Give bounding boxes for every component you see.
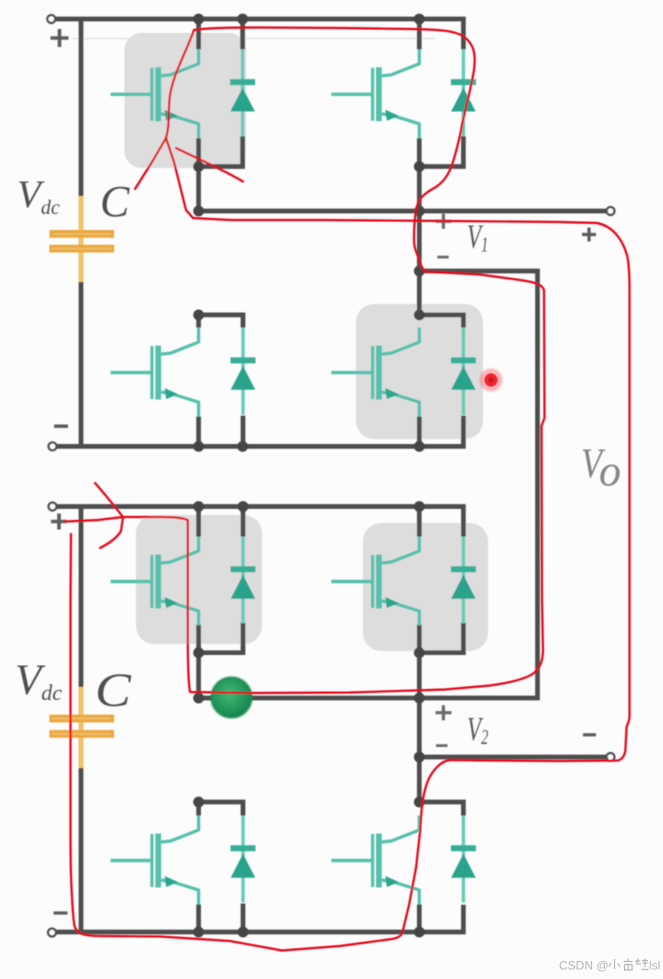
plus sign V1 (436, 214, 452, 229)
wire: S3 leg through V1 node down to lower pair (417, 138, 422, 315)
wire: bridge1 top rail (55, 19, 463, 49)
annotation: red stem up from wavy (166, 30, 194, 138)
svg-text:CSDN @: CSDN @ (559, 959, 609, 973)
junction: bridge1 bottom rail / S4 leg (414, 441, 425, 452)
junction: Vo tap on right leg (414, 266, 425, 277)
terminal bridge1 + (47, 15, 55, 23)
junction: bridge1 bottom rail / D2 branch (237, 441, 248, 452)
diode D2' (231, 816, 256, 903)
terminal Vo - (607, 753, 615, 761)
plus sign bridge2 dc (51, 514, 67, 530)
minus sign V2 (436, 744, 448, 747)
capacitor C (bridge 1) orange lead (79, 196, 84, 283)
capacitor C (bridge 2) plates (49, 715, 114, 723)
junction: V1 line / right leg (414, 206, 425, 217)
junction: top rail / S1 leg (193, 14, 204, 25)
svg-text:Vdc: Vdc (17, 173, 60, 219)
terminal bridge2 - (48, 929, 56, 937)
wire: bridge1 left dc rail lower (79, 282, 84, 446)
wire: D1' branch lower elbow (199, 623, 243, 653)
junction: S4/D4 collector join (414, 310, 425, 321)
annotation: red inner loop stroke (65, 28, 545, 694)
annotation: red wavy left tail of loop (135, 138, 193, 218)
highlight box around S1 (upper-left IGBT pair, bridge 1) (125, 33, 247, 168)
wire: D1 branch upper stub (240, 19, 245, 49)
junction: bridge2 bottom rail / S4' leg (414, 927, 425, 938)
minus sign bridge1 dc (54, 425, 68, 428)
wire: D1' branch upper stub (241, 507, 246, 537)
wire: S3 leg upper stub (417, 19, 422, 49)
highlight box around S1' (upper-left IGBT pair, bridge 2) (136, 515, 262, 644)
terminal Vo + (607, 207, 615, 215)
diode D1' (231, 537, 256, 624)
svg-text:V2: V2 (467, 711, 488, 749)
plus sign V2 (436, 705, 452, 720)
wire: D2 branch bottom stub (241, 416, 246, 447)
junction: S2/D2 collector join (193, 310, 204, 321)
junction: bridge2 top rail / D1' branch (238, 501, 249, 512)
diode D1 (230, 49, 255, 136)
highlight box around S4' (lower-right IGBT pair, bridge 1) (356, 304, 483, 439)
node marker: green dot on bridge2 output (212, 678, 252, 718)
annotation: red scribble bridge2 plus b (100, 517, 123, 548)
wire: bridge2 left dc rail lower (79, 768, 84, 932)
junction: S2'/D2' collector join (193, 797, 204, 808)
junction: bridge2 bottom rail / D2' branch (238, 927, 249, 938)
minus sign V1 (437, 256, 448, 259)
diode D4 (451, 328, 476, 415)
svg-text:C: C (100, 177, 130, 226)
wire: S3' leg upper stub (417, 507, 422, 537)
wire: bridge1 left dc rail upper (79, 19, 84, 199)
wire: S1 leg lower + to output node (196, 138, 201, 211)
IGBT S4' (331, 816, 419, 905)
plus sign Vo top (582, 228, 596, 242)
IGBT S2' (111, 816, 199, 905)
wire: Vo link from bridge1 right leg down around to bridge2 output (199, 271, 538, 698)
wire: S2 leg bottom stub (196, 417, 201, 447)
wire: S2' leg top stub (196, 802, 201, 816)
wire: D1 branch lower elbow (199, 136, 243, 166)
wire: S2 pair top elbow (199, 315, 243, 328)
wire: S1' leg lower to bridge2 output node (196, 625, 201, 699)
capacitor C (bridge 1) plates (49, 230, 114, 238)
wire: S2' pair top elbow (199, 802, 243, 816)
IGBT S1 (111, 49, 199, 138)
IGBT S1' (111, 537, 199, 626)
svg-text:o: o (599, 447, 621, 496)
svg-text:Vdc: Vdc (15, 657, 62, 705)
junction: V1 line / left leg midpoint (193, 206, 204, 217)
junction: bridge2 top rail / S3' leg (414, 501, 425, 512)
watermark (559, 959, 660, 973)
wire: V1 output line to + terminal (199, 209, 609, 214)
junction: bridge2 output / right leg (414, 693, 425, 704)
junction: S1/D1 emitter join (193, 161, 204, 172)
junction: S3/D3 emitter join (414, 161, 425, 172)
wire: S4' pair top elbow (419, 802, 463, 816)
capacitor C (bridge 2) orange lead (79, 687, 84, 769)
IGBT S3' (331, 537, 419, 626)
highlight box around S3' (upper-right IGBT pair, bridge 2) (363, 523, 488, 651)
faint slide line (72, 38, 435, 40)
wire: S3' leg through V2 node down (417, 625, 422, 803)
terminal bridge1 - (49, 442, 57, 450)
wire: bridge2 top rail (55, 507, 463, 537)
wire: D2' branch bottom stub (241, 904, 246, 933)
junction: bridge1 bottom rail / S2 leg (193, 441, 204, 452)
junction: S4'/D4' collector join (414, 797, 425, 808)
junction: top rail / S3 leg (414, 14, 425, 25)
wire: bridge2 bottom rail (55, 905, 463, 932)
wire: S4 leg bottom stub (417, 417, 422, 447)
wire: S2 leg top stub (196, 315, 201, 328)
wire: D3' branch lower elbow (419, 623, 463, 653)
IGBT S3 (331, 49, 419, 138)
node marker: red dot by D4 (480, 369, 503, 392)
diode D4' (451, 816, 476, 903)
wire: S1 leg upper stub (196, 19, 201, 49)
annotation: red short diagonal (176, 148, 243, 182)
wire: S2' leg bottom stub (196, 905, 201, 933)
junction: bridge2 bottom rail / S2' leg (193, 927, 204, 938)
IGBT S2 (111, 328, 199, 417)
terminal bridge2 + (49, 503, 57, 511)
junction: S1'/D1' emitter join (193, 647, 204, 658)
plus sign bridge1 dc (51, 29, 69, 47)
minus sign bridge2 dc (54, 911, 68, 914)
wire: S4 pair top elbow (419, 315, 463, 328)
wire: bridge2 left dc rail upper (79, 507, 84, 690)
diode D2 (231, 328, 256, 415)
wire: bridge1 bottom rail (55, 416, 463, 447)
wire: S4' leg bottom stub (417, 905, 422, 933)
svg-text:C: C (95, 665, 132, 718)
junction: top rail / D1 branch (237, 14, 248, 25)
junction: S3'/D3' emitter join (414, 647, 425, 658)
annotation: red scribble bridge2 plus a (95, 483, 123, 517)
IGBT S4 (331, 328, 419, 417)
minus sign Vo bottom (583, 733, 596, 736)
junction: bridge2 output / left leg midpoint (193, 693, 204, 704)
svg-text:V1: V1 (467, 218, 488, 256)
svg-text:lsl: lsl (649, 959, 660, 973)
wire: D3 branch lower elbow (419, 136, 463, 166)
diode D3' (451, 537, 476, 624)
diode D3 (451, 49, 476, 136)
wire: S1' leg upper stub (196, 507, 201, 537)
annotation: red outer loop stroke (71, 218, 630, 951)
junction: bridge2 top rail / S1' leg (193, 501, 204, 512)
junction: V2 line / right leg (414, 752, 425, 763)
wire: V2 output line to - terminal (419, 755, 609, 760)
